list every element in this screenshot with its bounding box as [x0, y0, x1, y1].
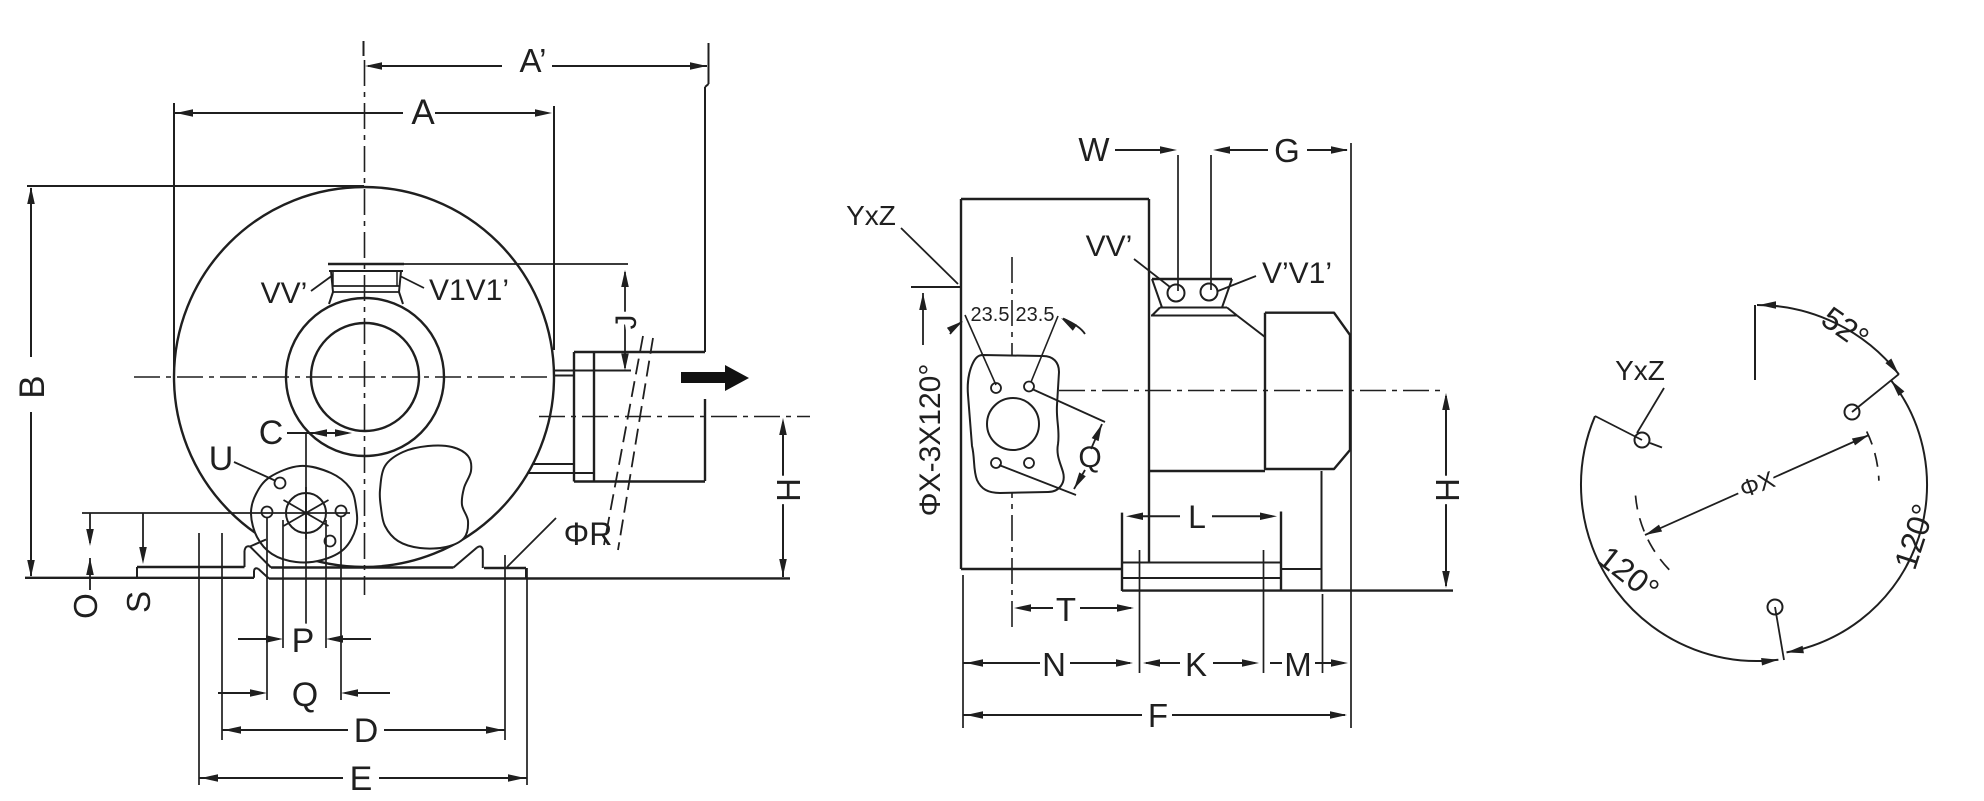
svg-text:E: E — [350, 760, 373, 798]
svg-text:C: C — [259, 414, 284, 452]
svg-text:Q: Q — [292, 676, 318, 714]
svg-text:YxZ: YxZ — [846, 200, 896, 231]
svg-text:G: G — [1274, 132, 1300, 169]
svg-text:N: N — [1042, 646, 1066, 683]
svg-text:H: H — [770, 478, 807, 502]
svg-text:F: F — [1148, 697, 1168, 734]
svg-text:V1V1’: V1V1’ — [429, 274, 509, 307]
svg-text:V’V1’: V’V1’ — [1262, 257, 1332, 290]
svg-text:D: D — [354, 712, 379, 750]
svg-text:23.5: 23.5 — [971, 304, 1010, 326]
svg-text:H: H — [1429, 478, 1466, 502]
svg-text:ΦR: ΦR — [564, 516, 613, 552]
svg-text:VV’: VV’ — [261, 277, 308, 310]
svg-text:VV’: VV’ — [1086, 230, 1133, 263]
svg-text:K: K — [1185, 646, 1207, 683]
svg-text:P: P — [292, 622, 315, 660]
svg-text:J: J — [610, 315, 643, 330]
svg-text:W: W — [1078, 131, 1110, 168]
svg-text:S: S — [120, 591, 157, 613]
svg-text:B: B — [13, 375, 52, 398]
svg-text:U: U — [209, 440, 234, 478]
svg-text:L: L — [1188, 499, 1206, 535]
svg-text:Q: Q — [1078, 441, 1101, 474]
svg-text:A: A — [411, 93, 435, 132]
svg-text:23.5: 23.5 — [1016, 304, 1055, 326]
svg-text:A’: A’ — [520, 42, 547, 79]
svg-text:M: M — [1284, 646, 1312, 683]
svg-text:T: T — [1056, 591, 1076, 628]
svg-text:YxZ: YxZ — [1615, 355, 1665, 386]
svg-text:ΦX-3X120°: ΦX-3X120° — [914, 364, 947, 517]
svg-text:O: O — [67, 593, 104, 619]
